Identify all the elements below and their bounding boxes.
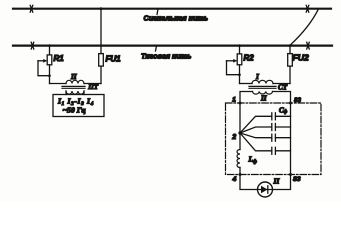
wire below inductor xyxy=(239,168,241,175)
label traction rail leader xyxy=(156,46,157,51)
wire signal rail (top) xyxy=(13,8,331,10)
svg-text:R2: R2 xyxy=(244,54,255,63)
wire below R2 xyxy=(239,65,241,84)
wire rheostat tap of R1 xyxy=(38,61,50,76)
svg-text:83: 83 xyxy=(293,176,301,183)
svg-text:II: II xyxy=(260,95,267,103)
svg-text:I: I xyxy=(255,73,259,81)
node: FU2 junction on traction rail xyxy=(289,44,292,47)
wire to PT winding left xyxy=(50,83,67,85)
filter unit dash-dot box xyxy=(226,103,322,175)
svg-text:Сф: Сф xyxy=(279,106,288,115)
node terminal 83 bottom xyxy=(289,173,292,176)
svg-text:ПТ: ПТ xyxy=(87,83,99,91)
svg-text:СТ: СТ xyxy=(278,84,288,92)
wire below FU1 xyxy=(100,66,102,83)
node: R2 tap on traction rail xyxy=(238,44,241,47)
svg-text:~50 Гц: ~50 Гц xyxy=(63,106,87,115)
capacitor Cf 2 xyxy=(240,124,291,134)
svg-text:83: 83 xyxy=(294,97,301,104)
svg-text:П: П xyxy=(273,177,281,186)
node terminal 83 top xyxy=(289,102,292,105)
svg-text:II: II xyxy=(70,73,77,81)
node: R1 tap on traction rail xyxy=(48,44,51,47)
wire transposition curve to signal rail xyxy=(290,9,319,46)
wire to ST winding left xyxy=(240,83,253,85)
svg-text:FU1: FU1 xyxy=(106,55,122,64)
wire R2 drop xyxy=(239,46,241,54)
label signal rail leader xyxy=(157,9,158,15)
transformer PT core xyxy=(62,85,85,87)
inductor Lf xyxy=(237,150,240,168)
node: FU1 tap on signal rail xyxy=(100,7,103,10)
wire left branch 1 to 2 xyxy=(239,103,241,150)
node: R1 tap joint xyxy=(48,74,51,77)
transformer ST core xyxy=(249,85,276,87)
rheostat arrow of R1 xyxy=(38,60,44,62)
svg-text:FU2: FU2 xyxy=(293,53,309,63)
svg-text:R1: R1 xyxy=(54,54,65,63)
insulated joint left on traction rail xyxy=(31,42,34,49)
svg-text:1: 1 xyxy=(232,97,236,104)
capacitor Cf 4 xyxy=(240,133,291,154)
node terminal 4 xyxy=(239,173,242,176)
resistor R1 xyxy=(47,55,52,65)
node terminal 1 xyxy=(239,102,242,105)
wire right branch (83 to 83) xyxy=(290,103,292,175)
transformer PT winding II (top) xyxy=(66,80,84,83)
fuse FU2 xyxy=(288,54,293,67)
wire to PT winding right xyxy=(84,83,101,85)
relay P (track relay) xyxy=(258,182,273,197)
transformer ST winding I (top) xyxy=(252,80,273,83)
capacitor Cf 3 xyxy=(240,133,291,141)
wire below R1 xyxy=(49,65,51,84)
capacitor Cf 1 xyxy=(240,113,291,133)
wire R1 drop xyxy=(49,46,51,55)
wire traction rail (bottom) xyxy=(13,44,332,46)
source box 50 Hz xyxy=(53,95,104,117)
node 2 xyxy=(238,131,241,134)
resistor R2 xyxy=(237,54,242,65)
svg-text:Lф: Lф xyxy=(248,154,258,165)
wire from relay to 83 xyxy=(273,175,291,190)
insulated joint right on signal rail xyxy=(306,5,309,12)
wire to relay P xyxy=(240,175,258,190)
wire to ST winding right xyxy=(273,83,290,85)
fuse FU1 xyxy=(99,54,104,67)
insulated joint left on signal rail xyxy=(30,5,33,12)
svg-text:Сигнальная нить: Сигнальная нить xyxy=(144,14,209,23)
wire rheostat tap of R2 xyxy=(227,61,240,75)
svg-text:Тяговая нить: Тяговая нить xyxy=(141,52,191,61)
wire below FU2 xyxy=(289,66,291,83)
transformer PT winding I (bottom) xyxy=(66,91,84,94)
transformer ST winding II (bottom) xyxy=(253,92,273,95)
svg-text:4: 4 xyxy=(232,176,237,183)
wire FU1 drop xyxy=(100,9,102,54)
rheostat arrow of R2 xyxy=(227,60,234,62)
wire ST II right down xyxy=(273,92,291,104)
node: R2 tap joint xyxy=(238,73,241,76)
wire ST II left down xyxy=(240,92,253,104)
svg-text:2: 2 xyxy=(231,134,236,141)
wire FU2 drop xyxy=(289,46,291,54)
insulated joint right on traction rail xyxy=(307,42,310,49)
